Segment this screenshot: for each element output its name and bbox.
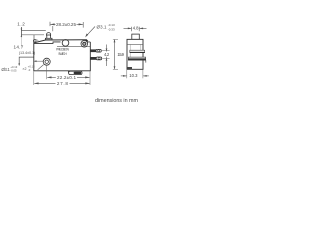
hinge pin extension line bbox=[33, 35, 35, 40]
switch body outline bbox=[34, 40, 91, 71]
body end view bbox=[127, 39, 143, 69]
plate2 right end tick bbox=[145, 60, 147, 62]
mounting hole 1 outer bbox=[43, 58, 50, 65]
mounting hole 1 inner bbox=[45, 60, 48, 63]
terminal extension dashes bbox=[102, 50, 110, 52]
svg-text:4.8: 4.8 bbox=[133, 25, 139, 30]
svg-text:10.3: 10.3 bbox=[129, 73, 138, 78]
svg-text:+0.13: +0.13 bbox=[10, 65, 17, 69]
svg-text:-0.13: -0.13 bbox=[108, 23, 115, 27]
terminal T2 (NO) bbox=[90, 57, 96, 60]
cover seam line bbox=[57, 46, 90, 48]
lever free position line A bbox=[21, 30, 45, 32]
vertical dim line for 1.2 bbox=[20, 27, 22, 37]
mounting hole B outer bbox=[81, 41, 88, 48]
dimension 4.8 bbox=[124, 27, 147, 31]
bottom terminal end view bbox=[127, 67, 132, 69]
internal guide lines bbox=[129, 44, 131, 57]
svg-text:14.7: 14.7 bbox=[14, 44, 24, 49]
dimension 22.2±0.1 bbox=[89, 71, 91, 85]
bottom solder terminal (COM) bbox=[68, 71, 70, 73]
svg-text:28.2±0.25: 28.2±0.25 bbox=[56, 22, 76, 27]
hole 1 horizontal centerline to body edge bbox=[34, 60, 44, 62]
mounting hole B inner bbox=[83, 42, 86, 45]
dimension 10.3 bbox=[126, 70, 128, 79]
svg-text:SWITCH: SWITCH bbox=[58, 52, 67, 56]
svg-text:dimensions in mm: dimensions in mm bbox=[95, 98, 139, 104]
dimension 28.2±0.25 bbox=[50, 22, 83, 32]
lever arm bbox=[34, 40, 86, 43]
svg-text:22.2±0.1: 22.2±0.1 bbox=[57, 75, 76, 80]
svg-text:Ø3.1: Ø3.1 bbox=[1, 67, 10, 72]
hole 1 centerline bbox=[46, 65, 48, 79]
body top edge bbox=[34, 42, 61, 44]
dimension 27.8 bbox=[33, 71, 35, 85]
plunger bbox=[47, 33, 51, 37]
svg-text:4.2: 4.2 bbox=[104, 52, 110, 57]
dimension 4.2 bbox=[106, 45, 108, 52]
svg-text:Ø3.1: Ø3.1 bbox=[97, 25, 108, 30]
svg-text:-0.33: -0.33 bbox=[108, 28, 115, 32]
svg-text:1.2: 1.2 bbox=[17, 21, 25, 26]
plunger end view bbox=[132, 34, 140, 39]
lever operating position line B bbox=[21, 34, 44, 36]
svg-text:27.8: 27.8 bbox=[57, 81, 68, 86]
extension below bbox=[20, 37, 22, 47]
svg-text:15.9: 15.9 bbox=[117, 52, 124, 57]
cover seam end view bbox=[127, 43, 143, 45]
leader to roller bbox=[87, 27, 95, 36]
terminal plate 2 end view bbox=[128, 57, 145, 60]
terminal T1 (NC) bbox=[90, 49, 96, 52]
leader from Ø3.1 x2 label bbox=[38, 65, 44, 70]
top right edge segment bbox=[88, 41, 91, 43]
svg-text:×2: ×2 bbox=[22, 67, 26, 71]
lever end hook bbox=[86, 40, 88, 42]
hinge bbox=[34, 40, 37, 43]
svg-text:-0.05: -0.05 bbox=[10, 69, 17, 73]
13.4 dimension bracket bbox=[19, 57, 34, 65]
roller (circle A) bbox=[62, 40, 69, 47]
terminal plate 1 end view bbox=[130, 50, 145, 52]
dimension 15.9 bbox=[113, 38, 118, 40]
